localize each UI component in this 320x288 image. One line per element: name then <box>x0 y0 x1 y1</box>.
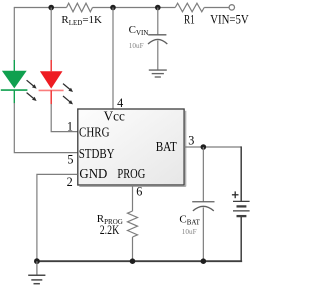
node: C_VIN tap <box>155 5 161 11</box>
svg-text:RLED=1K: RLED=1K <box>61 14 102 27</box>
wire: top rail left segment <box>14 7 66 9</box>
battery BT1 <box>233 201 250 216</box>
resistor R_PROG <box>128 211 138 237</box>
capacitor C_BAT <box>192 147 214 261</box>
svg-text:2: 2 <box>67 175 73 189</box>
svg-text:PROG: PROG <box>117 166 145 181</box>
label + (battery) <box>232 191 239 198</box>
node: C_BAT tap <box>201 144 207 150</box>
op IC U1 body <box>78 109 184 185</box>
wire: top rail middle segment <box>93 7 176 9</box>
svg-text:3: 3 <box>188 133 194 147</box>
node: C_BAT rail junction <box>201 258 207 264</box>
node: GND rail junction <box>34 258 40 264</box>
node: Vcc tap <box>110 5 116 11</box>
resistor R_LED <box>67 3 93 12</box>
svg-text:BAT: BAT <box>156 139 178 154</box>
node: R_PROG rail junction <box>130 258 136 264</box>
svg-text:VIN=5V: VIN=5V <box>210 13 249 27</box>
svg-text:10uF: 10uF <box>129 42 144 50</box>
wire: GND pin 2 to ground rail <box>37 174 78 261</box>
svg-text:6: 6 <box>136 185 142 199</box>
wire: to VIN terminal <box>204 7 229 9</box>
capacitor C_VIN <box>148 8 167 71</box>
svg-text:2.2K: 2.2K <box>100 223 120 237</box>
wire: battery negative branch <box>240 216 242 261</box>
wire: BAT pin 3 <box>184 146 241 148</box>
svg-text:10uF: 10uF <box>182 228 197 236</box>
ground (main) <box>28 261 45 284</box>
LED D1 emission arrows <box>27 80 37 101</box>
svg-text:R1: R1 <box>184 13 195 27</box>
wire: battery positive branch <box>240 146 242 201</box>
LED D1 (green) <box>1 60 28 103</box>
wire: ground rail <box>37 259 241 262</box>
svg-text:STDBY: STDBY <box>79 146 115 161</box>
wire: Vcc pin 4 <box>112 8 114 110</box>
LED D2 (red) <box>39 60 64 104</box>
wire: green LED cathode to STDBY pin 5 <box>14 103 77 153</box>
ground (C_VIN) <box>149 70 167 77</box>
IC U1 drop shadow <box>79 111 185 187</box>
wire: R_PROG to ground rail <box>132 237 134 261</box>
svg-text:CHRG: CHRG <box>79 124 110 139</box>
wire: red LED cathode to CHRG pin 1 <box>51 104 77 132</box>
wire: green LED anode <box>13 7 15 61</box>
LED D2 emission arrows <box>63 84 73 105</box>
node: red LED tap <box>48 5 54 11</box>
svg-text:GND: GND <box>79 166 107 181</box>
svg-text:1: 1 <box>67 120 73 134</box>
wire: PROG pin 6 lead <box>132 185 134 211</box>
wire: red LED anode <box>50 8 52 61</box>
svg-text:5: 5 <box>67 153 73 167</box>
terminal VIN <box>229 5 234 10</box>
resistor R1 <box>175 3 204 12</box>
svg-text:Vcc: Vcc <box>104 109 125 124</box>
